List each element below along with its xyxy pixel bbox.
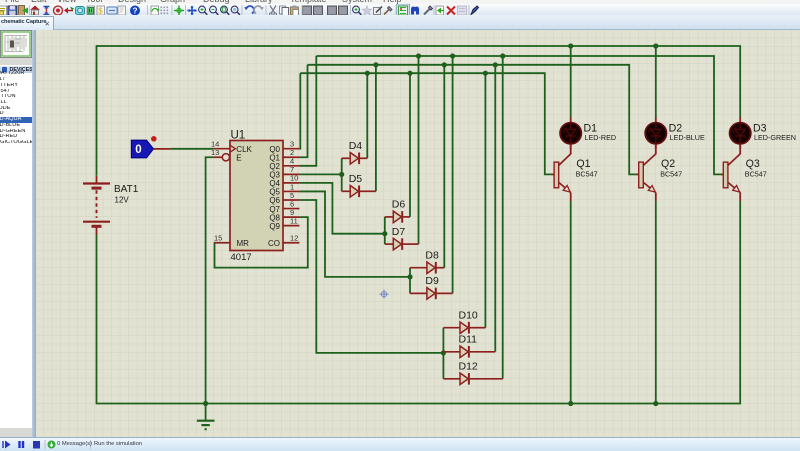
- svg-text:MR: MR: [237, 238, 250, 247]
- node D12 cathode on green bus: [500, 53, 505, 58]
- wire D10 D11 D12 anode bus: [442, 327, 444, 378]
- wire D5 cathode riser: [375, 64, 377, 191]
- logicstate toggle input 0: [131, 140, 153, 158]
- node Q2 emitter rail: [653, 400, 658, 405]
- node ground tap: [203, 400, 208, 405]
- node LED D1 feed: [568, 43, 573, 48]
- svg-text:CO: CO: [268, 238, 280, 247]
- wire D8 D9 anode bus: [409, 267, 411, 293]
- wire D4 D5 anode bus: [341, 158, 343, 191]
- svg-text:D8: D8: [425, 249, 439, 261]
- wire ground rail: [96, 402, 741, 404]
- pin Q1: [269, 148, 299, 162]
- wire D11 cathode riser: [494, 64, 496, 351]
- wire Q2 riser: [299, 56, 316, 166]
- pin Q4: [269, 173, 299, 187]
- node D9 cathode on green bus: [450, 53, 455, 58]
- wire Q1 riser: [299, 64, 307, 156]
- node Q1 emitter rail: [568, 400, 573, 405]
- wire Q6 to D10 D11 D12 anodes: [299, 200, 443, 353]
- wire toggle output stub: [154, 147, 171, 149]
- wire battery negative drop: [96, 234, 98, 403]
- diode D4: [342, 140, 368, 164]
- pin 15 MR: [214, 233, 249, 247]
- pin Q5: [269, 182, 299, 196]
- pin Q6: [269, 190, 299, 204]
- cursor crosshair: [380, 289, 389, 298]
- wire blue bus Q1/D5/D8/D11 to Q2 base: [308, 64, 639, 174]
- wire Q2 emitter drop: [655, 201, 657, 404]
- wire Q5 to D8 D9 anodes: [299, 191, 410, 276]
- pin Q2: [269, 156, 299, 170]
- svg-text:D5: D5: [349, 173, 363, 185]
- svg-text:D10: D10: [459, 309, 478, 321]
- node D11 cathode on blue bus: [493, 62, 498, 67]
- svg-text:12: 12: [290, 233, 298, 242]
- svg-text:BC547: BC547: [745, 169, 767, 178]
- LED D2 blue: [645, 117, 705, 148]
- node Q5 anode bus: [407, 274, 412, 279]
- svg-text:LED-RED: LED-RED: [585, 133, 617, 142]
- node D5 cathode on blue bus: [373, 62, 378, 67]
- svg-text:4017: 4017: [231, 252, 252, 263]
- svg-text:D6: D6: [392, 198, 406, 210]
- wire D2 anode drop: [655, 46, 657, 118]
- node D6 cathode on red bus: [407, 70, 412, 75]
- node LED D2 feed: [653, 43, 658, 48]
- svg-text:Q3: Q3: [746, 157, 760, 169]
- svg-text:BAT1: BAT1: [114, 184, 139, 195]
- svg-text:?: ?: [132, 5, 137, 15]
- wire D6 cathode riser: [409, 73, 411, 217]
- pin Q3: [269, 165, 299, 179]
- transistor Q2 BC547: [637, 144, 683, 201]
- diode D7: [385, 225, 419, 249]
- svg-text:D7: D7: [392, 225, 406, 237]
- node Q6 anode bus: [441, 350, 446, 355]
- node D10 cathode on red bus: [483, 70, 488, 75]
- svg-text:12V: 12V: [115, 195, 130, 204]
- diode D11: [443, 333, 495, 357]
- wire D10 cathode riser: [484, 73, 486, 328]
- wire Q8 to MR: [215, 217, 308, 268]
- svg-text:$: $: [98, 6, 103, 15]
- node D8 cathode on blue bus: [442, 62, 447, 67]
- wire red bus Q0/D4/D6/D10 to Q1 base: [300, 73, 554, 174]
- wire D8 cathode riser: [443, 64, 445, 267]
- svg-text:D9: D9: [425, 275, 439, 287]
- svg-text:LED-BLUE: LED-BLUE: [670, 133, 705, 142]
- svg-text:13: 13: [211, 148, 219, 157]
- node D7 cathode on green bus: [416, 53, 421, 58]
- wire D4 cathode riser: [366, 73, 368, 158]
- diode D9: [410, 275, 453, 299]
- wire D12 cathode riser: [502, 56, 504, 379]
- svg-text:Q1: Q1: [576, 157, 590, 169]
- wire Q1 emitter drop: [570, 201, 572, 404]
- node D4 cathode on red bus: [365, 70, 370, 75]
- pin 14 CLK: [211, 139, 253, 153]
- wire D6 D7 anode bus: [384, 216, 386, 243]
- wire Q3 emitter drop: [739, 201, 741, 404]
- svg-text:11: 11: [290, 216, 298, 225]
- svg-text:Q9: Q9: [269, 221, 280, 230]
- diode D10: [443, 309, 485, 333]
- svg-text:D12: D12: [459, 360, 478, 372]
- battery BAT1 12V: [83, 175, 139, 234]
- wire Q0 riser: [298, 73, 301, 149]
- diode D12: [443, 360, 502, 384]
- node Q4 anode bus: [382, 231, 387, 236]
- wire green bus Q2/D7/D9/D12 to Q3 base: [316, 56, 723, 174]
- pin Q0: [269, 139, 299, 153]
- LED D3 green: [730, 117, 796, 148]
- op-amp U1 4017 counter body: [230, 129, 283, 263]
- node Q3 anode bus: [339, 171, 344, 176]
- pin 12 CO: [268, 233, 299, 247]
- wire battery positive riser: [96, 46, 98, 176]
- svg-text:D4: D4: [349, 140, 363, 152]
- node toggle state dot: [151, 136, 157, 142]
- diode D8: [410, 249, 444, 273]
- svg-text:BC547: BC547: [660, 169, 682, 178]
- diode D6: [385, 198, 410, 222]
- svg-text:D11: D11: [459, 333, 478, 345]
- svg-text:U1: U1: [231, 129, 246, 141]
- wire D7 cathode riser: [418, 56, 420, 244]
- diode D5: [342, 173, 376, 197]
- wire Q3 to D4 D5 anodes: [299, 173, 341, 175]
- pin Q7: [269, 199, 299, 213]
- pin Q9: [269, 216, 299, 230]
- transistor Q1 BC547: [552, 144, 598, 201]
- wire Q4 to D6 D7 anodes: [299, 182, 384, 233]
- wire E pin to ground rail: [206, 157, 214, 403]
- svg-text:15: 15: [214, 233, 222, 242]
- ground: [197, 403, 215, 429]
- svg-text:LED-GREEN: LED-GREEN: [754, 133, 796, 142]
- transistor Q3 BC547: [721, 144, 767, 201]
- pin 13 E: [211, 148, 242, 163]
- pin Q8: [269, 207, 299, 221]
- wire D3 anode drop: [739, 45, 741, 118]
- wire D1 anode drop: [570, 46, 572, 118]
- svg-text:BC547: BC547: [576, 169, 598, 178]
- wire toggle to CLK: [170, 147, 213, 149]
- svg-text:E: E: [236, 153, 241, 162]
- wire D9 cathode riser: [452, 56, 454, 293]
- LED D1 red: [560, 117, 616, 148]
- wire 12V top rail: [96, 45, 741, 47]
- svg-text:0: 0: [135, 144, 141, 156]
- svg-text:Q2: Q2: [661, 157, 675, 169]
- svg-text:CLK: CLK: [236, 144, 252, 153]
